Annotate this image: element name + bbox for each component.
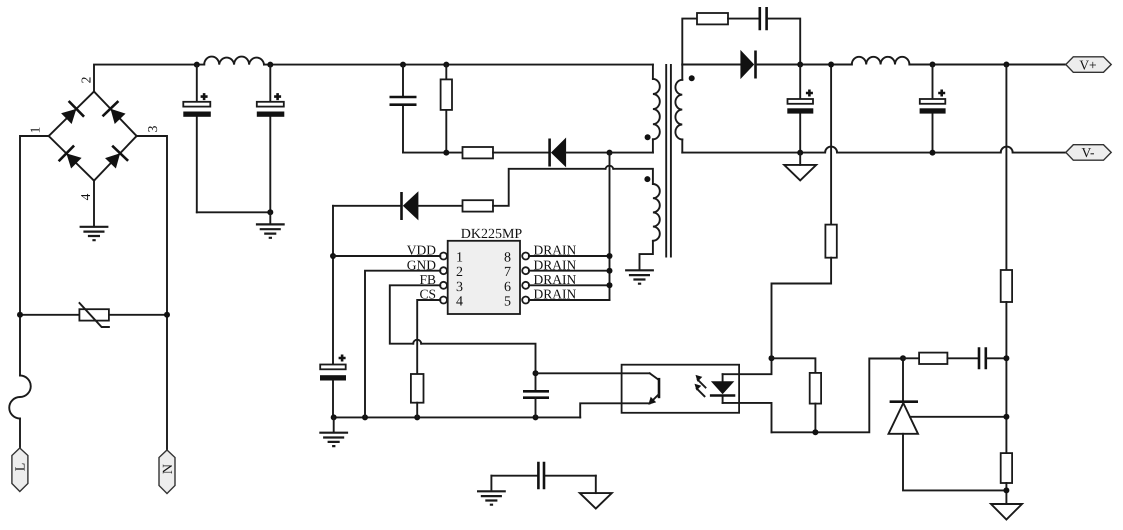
varistor RV1: [20, 303, 167, 327]
wire: pin 7 drain lead: [529, 270, 610, 272]
capacitor C7 (output electrolytic 2): [920, 65, 946, 153]
wire: TL431 ref lead: [910, 416, 1007, 418]
node: drain bus pin 6: [607, 282, 613, 288]
wire: Y cap right to secondary ground: [595, 476, 597, 493]
pin circle: U1 pin 5: [522, 297, 529, 304]
wire: pin 3 FB lead: [390, 285, 441, 343]
wire: Y cap left to primary ground: [490, 476, 492, 490]
bridge rectifier BR1 diode D4 (4 to 3): [94, 136, 137, 181]
ground: Y cap primary side ground: [477, 491, 506, 504]
bridge rectifier BR1 diode D3 (4 to 1): [49, 136, 94, 181]
pin circle: U1 pin 1: [440, 253, 447, 260]
resistor R5 (feedback upper): [772, 225, 837, 359]
node: varistor left junction: [17, 312, 23, 318]
wire: opto collector to FB junction: [536, 372, 650, 374]
wire: LED cathode out: [723, 403, 772, 432]
IC U1 DK225MP body: [448, 241, 520, 314]
optocoupler U2 light arrows: [695, 375, 706, 396]
wire: pin 5 drain lead: [529, 299, 610, 301]
wire hop: V- bus over divider rail: [1001, 147, 1013, 153]
svg-text:3: 3: [456, 280, 463, 295]
TL431 U3: [889, 358, 1007, 490]
svg-text:2: 2: [79, 77, 94, 84]
wire: FB line to opto collector branch: [421, 344, 535, 392]
wire: bridge output node 2 up to top bus: [94, 65, 204, 92]
ground: bridge rectifier ground: [80, 227, 109, 240]
node: ground bus at GND pin: [362, 414, 368, 420]
svg-text:6: 6: [504, 280, 511, 295]
transformer T1 core: [666, 65, 671, 257]
node: output rectifier junction: [797, 62, 803, 68]
diode D7 (output rectifier): [682, 50, 852, 79]
node: snubber cap top: [400, 62, 406, 68]
bridge rectifier BR1 diode D1 (1 to 2): [49, 92, 94, 137]
node: C6 bottom junction: [797, 150, 803, 156]
node: cap C1 top: [194, 62, 200, 68]
ground: output divider ground triangle: [991, 504, 1022, 520]
ground: auxiliary winding ground: [625, 270, 654, 283]
ground: Y cap secondary side ground triangle: [580, 493, 612, 509]
wire hop: aux wire over drain bus: [606, 166, 614, 169]
transformer T1 secondary winding: [675, 65, 682, 153]
node: C7 bottom junction: [930, 150, 936, 156]
node: TL431 anode junction: [1003, 487, 1009, 493]
wire hop: V- bus over feedback rail: [825, 147, 837, 153]
transformer T1 primary winding: [653, 65, 660, 153]
terminal V+: [1066, 57, 1111, 73]
bridge rectifier BR1 diode D2 (3 to 2): [94, 92, 137, 137]
node: ground bus at C5: [533, 414, 539, 420]
wire: bridge node 4 down to ground: [93, 181, 95, 227]
optocoupler U2 LED: [710, 374, 735, 403]
capacitor C5 (FB filter): [523, 391, 549, 417]
svg-text:L: L: [14, 463, 29, 472]
svg-text:4: 4: [78, 193, 93, 200]
wire: upper feedback resistor from V+: [830, 65, 832, 225]
wire: output divider rail: [1005, 65, 1007, 271]
wire: clamp bottom rail: [403, 152, 463, 154]
node: ground bus at C4: [331, 414, 337, 420]
node: clamp/primary/drain junction: [607, 150, 613, 156]
node: C2 bottom junction: [267, 209, 273, 215]
svg-text:N: N: [161, 464, 176, 474]
wire: C2 bottom to ground: [269, 212, 271, 224]
wire: N input to bridge right vertex: [137, 136, 167, 450]
svg-text:DK225MP: DK225MP: [461, 227, 523, 242]
resistor R4 (CS sense): [411, 374, 424, 417]
wire: pin 1 VDD lead: [333, 255, 440, 257]
wire: primary winding bottom to clamp junction: [610, 152, 653, 154]
wire: pin 2 GND lead: [365, 271, 440, 418]
pin circle: U1 pin 3: [440, 282, 447, 289]
terminal N: [159, 450, 176, 494]
node: drain bus pin 7: [607, 268, 613, 274]
optocoupler U2 phototransistor: [648, 373, 659, 404]
node: TL431 cathode node: [900, 355, 906, 361]
resistor R3 (VDD series): [463, 169, 606, 212]
pin circle: U1 pin 8: [522, 253, 529, 260]
terminal L: [12, 448, 29, 492]
node: primary polarity dot: [645, 134, 651, 140]
node: V+ bus feedback tap: [828, 62, 834, 68]
wire: L input to bridge left vertex: [20, 136, 49, 376]
ground: secondary ground triangle: [784, 165, 816, 181]
pin circle: U1 pin 2: [440, 267, 447, 274]
wire: C4 to primary ground symbol: [333, 417, 335, 432]
wire: opto emitter to primary ground bus: [580, 403, 650, 417]
inductor L2 (output filter): [852, 57, 910, 65]
svg-text:1: 1: [456, 251, 463, 266]
wire: C6 bottom to secondary ground: [799, 153, 801, 165]
node: clamp rail junction at R1: [443, 150, 449, 156]
diode D5 (clamp): [550, 138, 610, 168]
svg-text:7: 7: [504, 265, 511, 280]
fuse F1: [9, 376, 31, 419]
capacitor C8 (compensation): [979, 347, 1007, 369]
node: C6 top junction: [930, 62, 936, 68]
resistor R2 (clamp series): [463, 147, 549, 158]
node: TL431 ref junction: [1003, 414, 1009, 420]
capacitor C9 (secondary snubber): [760, 7, 800, 65]
svg-text:2: 2: [456, 265, 463, 280]
wire: LED anode out to feedback node: [723, 358, 772, 374]
node: drain bus pin 8: [607, 253, 613, 259]
node: secondary polarity dot: [689, 75, 695, 81]
pin circle: U1 pin 6: [522, 282, 529, 289]
svg-text:8: 8: [504, 251, 511, 266]
transformer T1 auxiliary winding: [613, 169, 660, 269]
wire: fuse lower lead to L terminal: [19, 419, 21, 449]
wire: feedback node to bias resistor: [772, 358, 816, 373]
capacitor C10 (Y safety cap): [491, 462, 595, 490]
wire: C1 bottom to C2 bottom: [197, 211, 270, 213]
svg-text:1: 1: [28, 127, 43, 134]
node: bias resistor bottom junction: [812, 429, 818, 435]
pin circle: U1 pin 4: [440, 297, 447, 304]
terminal V-: [1066, 145, 1111, 161]
svg-text:3: 3: [145, 125, 160, 132]
svg-text:V-: V-: [1081, 145, 1095, 160]
node: compensation to divider junction: [1003, 355, 1009, 361]
ground: primary ground under C4: [319, 433, 348, 446]
node: VDD pin junction: [330, 253, 336, 259]
node: cap C2 top: [267, 62, 273, 68]
svg-text:5: 5: [504, 295, 511, 310]
resistor R7 (compensation): [903, 353, 978, 364]
wire: pin 6 drain lead: [529, 284, 610, 286]
wire: primary ground bus: [333, 416, 580, 418]
wire: VDD rail vertical: [332, 206, 334, 365]
node: snubber resistor top: [443, 62, 449, 68]
wire: V- bus: [682, 152, 1066, 154]
wire: cathode rail to TL431 cathode node: [772, 359, 904, 433]
diode D6 (VDD rectifier): [333, 191, 463, 220]
inductor L1 (input filter): [204, 57, 264, 65]
resistor R9 (divider upper): [1001, 270, 1012, 453]
resistor R10 (divider lower): [1001, 453, 1012, 504]
wire: pin 4 CS lead: [417, 300, 440, 374]
resistor R6 (opto bias): [810, 373, 821, 432]
capacitor C4 (VDD electrolytic): [320, 355, 346, 418]
wire: top bus from inductor to transformer: [264, 64, 653, 66]
node: feedback divider top node: [769, 355, 775, 361]
wire: V+ bus to terminal: [909, 64, 1065, 66]
pin circle: U1 pin 7: [522, 267, 529, 274]
resistor R1 (clamp snubber): [441, 65, 452, 153]
wire: pin 8 drain lead: [529, 255, 610, 257]
svg-text:4: 4: [456, 295, 463, 310]
capacitor C2 electrolytic: [257, 65, 285, 213]
wire: drain bus vertical: [609, 153, 611, 300]
node: varistor right junction: [164, 312, 170, 318]
node: ground bus at R4: [414, 414, 420, 420]
capacitor C1 electrolytic: [183, 65, 211, 213]
node: auxiliary polarity dot: [644, 176, 650, 182]
node: FB / opto collector junction: [533, 370, 539, 376]
node: divider tap on V+: [1003, 62, 1009, 68]
optocoupler U2 body: [622, 365, 740, 413]
capacitor C6 (output electrolytic 1): [787, 65, 813, 153]
wire hop: FB line over CS lead: [413, 340, 421, 344]
resistor R8 (secondary snubber): [682, 13, 758, 65]
ground: input filter ground: [256, 224, 285, 237]
svg-text:V+: V+: [1079, 57, 1096, 72]
capacitor C3 (clamp snubber): [390, 65, 417, 153]
